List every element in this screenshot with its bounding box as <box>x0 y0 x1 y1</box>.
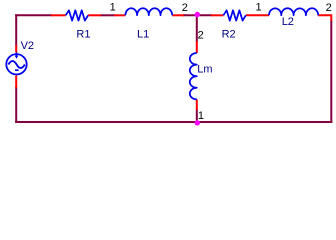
svg-text:V2: V2 <box>21 40 34 52</box>
svg-text:2: 2 <box>182 2 188 14</box>
svg-text:1: 1 <box>256 2 262 14</box>
svg-text:2: 2 <box>326 2 332 14</box>
svg-text:1: 1 <box>110 2 116 14</box>
svg-text:2: 2 <box>198 30 204 42</box>
svg-text:1: 1 <box>198 110 204 122</box>
svg-text:L2: L2 <box>282 16 294 28</box>
svg-text:L1: L1 <box>137 28 149 40</box>
svg-text:R2: R2 <box>222 29 236 41</box>
svg-text:R1: R1 <box>76 28 90 40</box>
svg-text:Lm: Lm <box>197 64 212 76</box>
